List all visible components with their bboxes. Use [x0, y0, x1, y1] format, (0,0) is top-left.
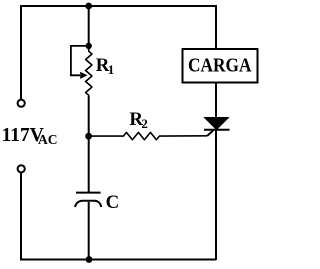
wire left vertical upper: [20, 5, 22, 100]
svg-text:2: 2: [141, 116, 148, 131]
terminal lower (117VAC): [18, 165, 25, 172]
wire middle vertical top: [88, 6, 90, 50]
load box CARGA: [183, 49, 258, 83]
node R1 top junction: [86, 43, 92, 49]
svg-text:1: 1: [108, 62, 115, 77]
rheostat R1 wiper arrow: [80, 72, 87, 79]
svg-text:AC: AC: [38, 132, 58, 147]
rheostat R1 body (zigzag): [86, 46, 92, 96]
svg-text:C: C: [106, 192, 120, 213]
wire right vertical upper: [215, 5, 217, 49]
wire right vertical middle: [215, 83, 217, 119]
terminal upper (117VAC): [18, 100, 25, 107]
wire middle vertical (node to capacitor): [88, 135, 90, 193]
node center junction: [85, 133, 92, 140]
SCR anode triangle: [205, 118, 229, 130]
wire bottom horizontal: [21, 259, 216, 261]
SCR cathode bar: [204, 129, 230, 131]
wire top horizontal: [21, 5, 216, 7]
wire left vertical lower: [20, 173, 22, 261]
wire middle vertical (capacitor to bottom): [88, 202, 90, 260]
resistor R2 body with leads: [89, 132, 208, 139]
node bottom junction: [86, 256, 93, 263]
rheostat R1 wiper wire: [71, 46, 89, 75]
node top junction: [85, 3, 92, 10]
svg-text:CARGA: CARGA: [188, 55, 252, 76]
wire middle vertical (R1 to node): [88, 96, 90, 137]
capacitor C top plate: [76, 192, 101, 194]
capacitor C curved plate: [75, 201, 101, 207]
wire right vertical lower: [215, 130, 217, 260]
SCR gate lead: [208, 130, 214, 136]
